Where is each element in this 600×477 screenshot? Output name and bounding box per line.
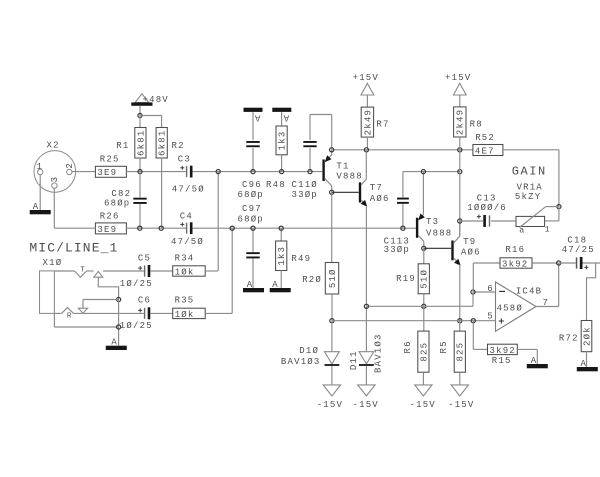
svg-text:X1Ø: X1Ø [43,258,63,268]
node R34 riser / top line [216,170,220,174]
wire tip switch to sleeve column [98,277,118,299]
svg-text:R16: R16 [505,245,525,255]
svg-text:5kZY: 5kZY [515,192,541,202]
jack ring switch [78,308,87,313]
capacitor C97 680p [238,204,264,288]
svg-text:C4: C4 [180,211,193,221]
svg-text:6k81: 6k81 [136,130,146,156]
connector X10 jack body [40,258,63,313]
svg-text:68Øp: 68Øp [104,198,130,208]
svg-text:825: 825 [456,342,466,362]
wire R52 right to pot node [503,150,559,207]
svg-text:825: 825 [419,342,429,362]
wire R34 up to top line [205,172,218,271]
connector X2 pin 1 [37,162,44,175]
wire X2 pin2 to R25 [72,171,95,173]
supply -15V under R5 [448,385,474,410]
node C96 / top line [251,170,255,174]
wire R8 column through nodes to T9 collector [459,137,461,236]
transistor T3 V888 [416,172,453,249]
title label MIC/LINE_1 [29,240,118,255]
wire R25 to node top line [126,171,185,173]
node C97 / bottom line [251,226,255,230]
transistor T7 A06 [332,150,390,206]
svg-text:2k49: 2k49 [456,109,466,135]
svg-text:3k92: 3k92 [502,259,528,269]
svg-text:IC4B: IC4B [516,286,542,296]
svg-text:1Øk: 1Øk [175,267,195,277]
node sleeve/switch junction upper [117,297,121,301]
node R1/top-line junction [138,170,142,174]
svg-text:V888: V888 [336,172,362,182]
connector X2 pin 3 [50,176,60,189]
node R15 riser / +input line [471,319,475,323]
jack tip contact [54,267,93,278]
wire R5 to -15V [459,372,461,385]
wire R15 to ground [517,349,537,364]
connector X2 pin 2 [65,162,75,175]
svg-text:BAV1Ø3: BAV1Ø3 [374,333,384,373]
svg-text:R2: R2 [172,141,185,151]
svg-text:R49: R49 [291,254,311,264]
svg-text:C11Ø: C11Ø [292,180,318,190]
svg-text:V888: V888 [426,229,452,239]
resistor R1 6k81 [116,128,146,159]
wire X2 pin1 to ground [39,175,41,210]
resistor R72 20k [559,321,592,352]
jack ring contact [54,308,143,321]
svg-text:R2Ø: R2Ø [302,275,322,285]
ground below C97 [243,280,264,293]
svg-text:C13: C13 [477,193,497,203]
svg-text:T: T [80,267,85,275]
svg-text:3E9: 3E9 [97,168,117,178]
node T3 emitter / top-right segment [421,170,425,174]
svg-text:47/25: 47/25 [562,245,595,255]
svg-text:R8: R8 [470,119,483,129]
wire R19 to feedback line [423,294,425,307]
wire top-right segment [403,171,460,173]
svg-text:1Øk: 1Øk [175,310,195,320]
svg-text:C5: C5 [138,253,151,263]
svg-text:-15V: -15V [317,400,343,410]
wire C6 to R35 [150,312,172,314]
wire R20 to noninverting line [331,294,333,321]
svg-text:C18: C18 [567,235,587,245]
wire T9base node down to R19 [423,248,425,263]
wire R6 to -15V [422,372,424,385]
svg-text:a: a [519,225,524,235]
wire inverting input pin 6 [473,291,496,293]
wire R16 to output node [532,262,559,264]
svg-text:A: A [531,356,538,366]
svg-text:R52: R52 [475,133,495,143]
svg-text:47/5Ø: 47/5Ø [172,184,205,194]
wire C3 to mid junctions top line [193,171,323,173]
svg-text:R72: R72 [559,333,579,343]
svg-text:3E9: 3E9 [97,225,117,235]
wire +input node down to R5 [459,321,461,331]
node T7 emitter / feedback line [364,304,368,308]
supply +15V right [445,73,471,95]
connector X2 (XLR) body [34,140,76,192]
wire feedback node down to R6 [423,306,425,331]
potentiometer VR1A 5kZY [515,183,559,236]
capacitor C5 10/25 [120,253,153,289]
wire C4 to T3 base bottom line [193,227,417,229]
resistor R48 1k3 [266,112,287,190]
svg-text:3: 3 [50,176,60,183]
wire X2 pin3 down to cold line [53,188,55,228]
wire X2 pin3 line to R26 [54,227,95,229]
diode D10 BAV103 [281,321,339,385]
resistor R35 10k [173,296,206,320]
svg-text:R15: R15 [492,356,512,366]
svg-text:C97: C97 [242,204,262,214]
svg-text:33Øp: 33Øp [384,245,410,255]
svg-text:MIC/LINE_1: MIC/LINE_1 [29,240,118,255]
node T3 collector / T9 base / R19 [422,246,426,250]
svg-text:R6: R6 [403,340,413,353]
wire +48V node to R2 top [140,116,162,128]
wire pin6 node up to R16 [473,263,500,292]
node sleeve junction lower [117,325,121,329]
svg-text:A: A [111,338,118,348]
svg-text:C3: C3 [178,155,191,165]
wire node to C13 [460,220,483,222]
svg-text:R48: R48 [266,180,286,190]
resistor R52 4E7 [473,133,503,156]
svg-text:AØ6: AØ6 [461,247,481,257]
ground above R48 [272,108,291,123]
ground at X2 pin1 [30,202,51,215]
wire R1 bottom to top line [139,158,141,172]
resistor R5 825 [439,331,466,372]
wire R26 to node bottom line [126,227,186,229]
svg-text:R25: R25 [100,155,120,165]
wire T7 emitter down to feedback node [365,206,367,307]
wire +input node down to R15 [473,321,487,350]
svg-text:X2: X2 [47,140,60,150]
supply +15V left [353,73,379,95]
svg-text:R5: R5 [439,340,449,353]
node R48 / top line [280,170,284,174]
svg-text:C6: C6 [138,296,151,306]
jack tip switch [94,271,144,277]
svg-text:R34: R34 [175,253,195,263]
wire C18 to edge and R72 tap [583,263,600,321]
svg-text:68Øp: 68Øp [238,190,264,200]
node R35 riser / bottom line [230,226,234,230]
resistor R26 3E9 [95,212,126,235]
svg-text:A: A [254,112,261,122]
resistor R34 10k [173,253,206,277]
svg-text:6k81: 6k81 [158,130,168,156]
capacitor C18 47/25 [562,235,595,269]
svg-text:3k92: 3k92 [490,346,516,356]
node R19 / feedback line [422,304,426,308]
svg-text:47/5Ø: 47/5Ø [171,237,204,247]
diode D11 BAV103 [349,306,384,385]
capacitor C113 330p [384,172,410,255]
svg-text:1ØØØ/6: 1ØØØ/6 [467,203,507,213]
svg-text:2: 2 [65,162,75,169]
svg-text:+48V: +48V [143,95,169,105]
svg-text:D11: D11 [349,350,359,370]
svg-text:1: 1 [37,162,44,172]
svg-text:-15V: -15V [410,400,436,410]
node C110 / T1 base junction [308,170,312,174]
svg-text:BAV1Ø3: BAV1Ø3 [281,357,321,367]
capacitor C110 330p [292,115,318,201]
svg-text:+15V: +15V [353,73,379,83]
wire switch link [83,300,119,309]
svg-text:+15V: +15V [445,73,471,83]
capacitor C96 680p [238,112,264,200]
svg-text:68Øp: 68Øp [238,215,264,225]
node R20 / D10 / +input line [330,319,334,323]
supply -15V under D10 [317,385,343,410]
wire R35 up to bottom line [205,228,232,313]
wire R72 to ground [586,352,588,367]
wire pot terminal 1 to node [545,207,559,221]
svg-text:A: A [247,280,254,290]
svg-text:2Øk: 2Øk [582,326,592,346]
transistor T1 V888 [322,150,362,193]
wire T9 emitter down [459,265,461,321]
supply -15V under R6 [410,385,436,410]
resistor R2 6k81 [156,128,185,159]
svg-text:-15V: -15V [448,400,474,410]
svg-text:R35: R35 [175,296,195,306]
resistor R7 2k49 [361,95,389,150]
svg-text:51Ø: 51Ø [420,269,430,289]
node R2/bottom-line junction [159,226,163,230]
supply +48V [131,94,169,116]
resistor R25 3E9 [95,155,126,179]
resistor R20 510 [302,263,338,295]
svg-text:A: A [581,359,588,369]
resistor R15 3k92 [488,344,518,366]
wire C13 to pot [491,220,516,222]
capacitor C13 1000/6 [467,193,507,227]
capacitor C3 47/50 [172,155,205,195]
wire output node to C18 [559,262,576,264]
svg-text:AØ6: AØ6 [370,194,390,204]
svg-text:R7: R7 [376,119,389,129]
svg-text:D1Ø: D1Ø [299,346,319,356]
node +48V junction [138,113,142,117]
ground at X10 sleeve [106,338,127,351]
wire T7base node down to R20 [331,192,333,262]
svg-text:A: A [33,202,40,212]
svg-text:R1: R1 [116,141,129,151]
node T1 emitter / rail [330,148,334,152]
svg-text:A: A [282,112,289,122]
capacitor C4 47/50 [171,211,204,247]
node R49 / bottom line [279,226,283,230]
node R7 / rail [364,148,368,152]
resistor R6 825 [403,331,430,372]
svg-text:33Øp: 33Øp [292,190,318,200]
svg-text:GAIN: GAIN [512,164,547,178]
svg-text:T3: T3 [426,217,439,227]
resistor R19 510 [396,264,430,294]
svg-text:R: R [67,313,72,321]
node T1 collector / T7 base / R20 [330,190,334,194]
svg-text:458Ø: 458Ø [497,304,523,314]
svg-text:5: 5 [487,311,494,321]
svg-text:T1: T1 [336,161,349,171]
svg-text:1: 1 [545,225,550,235]
svg-text:R19: R19 [396,274,416,284]
supply -15V under D11 [353,385,379,410]
svg-text:1k3: 1k3 [277,130,287,150]
node R52 / wiper junction [557,205,561,209]
resistor R49 1k3 [276,228,312,288]
transistor T9 A06 [424,221,481,265]
resistor R16 3k92 [500,245,532,269]
svg-text:1Ø/25: 1Ø/25 [120,279,153,289]
node T9 emitter / +input line [458,319,462,323]
op-amp IC4B 4580 [487,282,549,331]
capacitor C6 10/25 [120,296,153,332]
node C82/bottom-line junction [138,226,142,230]
node output / C18 [557,261,561,265]
wire R2 bottom to bottom line [161,158,163,228]
node R8 / rail [458,148,462,152]
node pin6 / feedback riser [471,290,475,294]
resistor R8 2k49 [454,95,483,137]
node T9 collector / C13 line [458,219,462,223]
svg-text:R26: R26 [100,212,120,222]
wire feedback line [366,292,473,306]
svg-text:-15V: -15V [353,400,379,410]
svg-text:A: A [272,280,279,290]
svg-text:6: 6 [487,284,494,294]
wire C110 top to T1 emitter node [310,115,332,150]
capacitor C82 680p [104,172,147,229]
ground below R15 [527,356,548,369]
label GAIN [512,164,547,178]
svg-text:T7: T7 [370,183,383,193]
svg-text:2k49: 2k49 [363,109,373,135]
wire upper rail [332,149,473,151]
node R8 column / top-right segment [458,170,462,174]
wire jack sleeve [54,300,118,346]
wire +48V node to R1 top [139,116,141,128]
wire output pin 7 up to R16 row [536,263,559,307]
ground below R49 [270,280,291,293]
wire noninverting input line pin 5 [332,320,496,322]
ground above C96 [244,108,263,123]
svg-text:4E7: 4E7 [475,146,495,156]
svg-text:1k3: 1k3 [277,246,287,266]
svg-text:1Ø/25: 1Ø/25 [120,321,153,331]
svg-text:T9: T9 [463,237,476,247]
svg-text:51Ø: 51Ø [328,268,338,288]
ground below R72 [577,359,598,372]
svg-text:C96: C96 [242,180,262,190]
node C113 / bottom line [401,226,405,230]
wire C5 to R34 [150,270,172,272]
